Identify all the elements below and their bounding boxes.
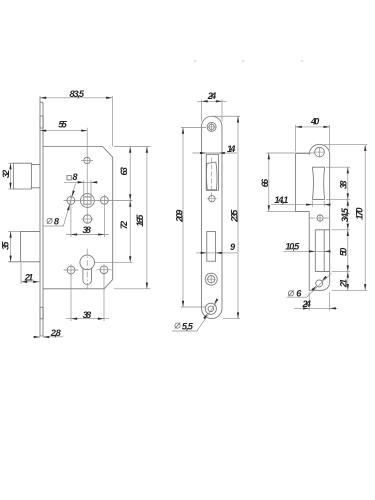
dim 10.5 xyxy=(284,250,331,252)
dim 55 xyxy=(40,130,87,132)
svg-text:14,1: 14,1 xyxy=(274,195,288,205)
follower hub xyxy=(81,194,95,208)
svg-text:24: 24 xyxy=(207,91,216,101)
strike plate outline xyxy=(296,144,330,290)
dim 38 cylinder xyxy=(66,274,109,321)
dim 21 xyxy=(21,263,39,284)
svg-text:209: 209 xyxy=(175,209,185,223)
latchbolt seen through opening xyxy=(206,162,216,190)
dia6 label leader xyxy=(287,273,332,297)
bottom screw hole xyxy=(205,303,216,314)
dia8 symbol xyxy=(47,218,52,224)
dim 66 xyxy=(266,153,314,211)
cylinder notch xyxy=(315,230,329,272)
svg-text:83,5: 83,5 xyxy=(70,89,85,99)
hub square extension lines xyxy=(84,180,91,197)
svg-text:66: 66 xyxy=(260,178,270,187)
svg-text:9: 9 xyxy=(230,242,236,252)
euro cylinder circle xyxy=(80,255,95,270)
latch opening xyxy=(312,167,324,199)
svg-text:8: 8 xyxy=(54,216,60,226)
svg-text:24: 24 xyxy=(302,299,311,309)
dim 2.8 xyxy=(33,336,63,338)
svg-text:5,5: 5,5 xyxy=(182,322,194,332)
svg-text:34,5: 34,5 xyxy=(340,207,350,222)
hub centerlines xyxy=(64,128,133,224)
dim 165 xyxy=(114,147,151,289)
dim 209 xyxy=(181,128,206,308)
hub left screw xyxy=(67,197,75,205)
strike top screw xyxy=(315,147,325,157)
dim 40 xyxy=(296,125,330,152)
lower screw hole xyxy=(205,273,217,285)
svg-text:235: 235 xyxy=(229,209,239,223)
dim sq8 line xyxy=(64,181,98,183)
svg-text:6: 6 xyxy=(296,288,302,298)
dim 35 xyxy=(8,231,20,261)
svg-text:63: 63 xyxy=(119,167,129,175)
dim 14 xyxy=(193,152,238,154)
dim 83.5 xyxy=(40,96,112,146)
svg-text:8: 8 xyxy=(72,172,78,182)
dim 14.1 xyxy=(271,201,330,207)
deadbolt xyxy=(8,231,40,261)
dim 235 xyxy=(213,116,241,318)
faceplate side view xyxy=(40,96,43,336)
dia6 symbol xyxy=(288,290,293,296)
svg-text:21: 21 xyxy=(338,279,348,288)
dia5.5 symbol xyxy=(175,323,180,329)
dimension arrowheads xyxy=(40,97,46,99)
dim 24 bottom xyxy=(294,292,338,310)
latchbolt head xyxy=(13,163,31,189)
cylinder right screw xyxy=(100,266,108,274)
faceplate stadium outline xyxy=(202,116,223,318)
svg-text:14: 14 xyxy=(227,144,235,154)
screw below hub xyxy=(83,215,91,223)
latch opening xyxy=(206,154,218,190)
screw below latch xyxy=(209,196,215,202)
dim 63-72 chain line xyxy=(95,147,133,263)
svg-text:38: 38 xyxy=(338,180,348,189)
latch centerline xyxy=(211,158,213,203)
top fixing screw xyxy=(84,157,90,163)
top screw hole xyxy=(207,122,216,131)
cylinder left screw xyxy=(67,266,75,274)
dia5.5 label leader xyxy=(172,302,217,331)
svg-text:21: 21 xyxy=(24,273,33,283)
middle screw xyxy=(317,215,323,221)
dim 38 hub xyxy=(66,206,109,237)
svg-text:72: 72 xyxy=(119,220,129,229)
svg-text:32: 32 xyxy=(1,169,11,178)
dia8 label leader xyxy=(44,184,76,227)
svg-text:170: 170 xyxy=(354,207,364,220)
faceplate screw slot bottom xyxy=(40,307,43,319)
faint watermark dots xyxy=(194,60,197,62)
faceplate screw slot top xyxy=(40,116,43,128)
svg-text:50: 50 xyxy=(338,247,348,256)
hub square hole 8mm xyxy=(84,197,91,204)
dim 32 xyxy=(8,163,15,189)
svg-text:10,5: 10,5 xyxy=(285,241,300,251)
sq8 square symbol xyxy=(67,176,71,180)
svg-text:38: 38 xyxy=(83,310,92,320)
svg-text:165: 165 xyxy=(135,214,145,227)
svg-text:38: 38 xyxy=(83,225,92,235)
deadbolt opening xyxy=(207,232,216,262)
hub right screw xyxy=(101,196,109,204)
svg-text:35: 35 xyxy=(0,241,10,250)
svg-text:55: 55 xyxy=(58,119,67,129)
svg-text:2,8: 2,8 xyxy=(50,328,62,338)
cylinder dashed centerline xyxy=(86,249,88,289)
bottom screw dia6 xyxy=(316,280,323,287)
dim 170 xyxy=(324,145,367,291)
lip bend line xyxy=(323,230,325,272)
dim 24 middle xyxy=(197,99,227,121)
svg-text:40: 40 xyxy=(310,117,320,127)
lock case outline xyxy=(43,147,113,289)
right chain dims 38/34.5/50/21 xyxy=(326,167,367,290)
cylinder keyway xyxy=(83,268,92,285)
dim 9 xyxy=(196,252,238,254)
latchbolt shank xyxy=(31,164,40,187)
